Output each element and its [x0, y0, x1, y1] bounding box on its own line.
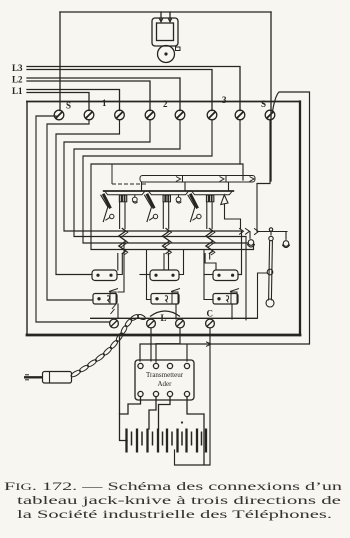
svg-text:S: S — [66, 101, 71, 111]
svg-text:S: S — [261, 99, 266, 109]
svg-text:3: 3 — [222, 95, 227, 105]
svg-text:la Société industrielle des Té: la Société industrielle des Téléphones. — [17, 509, 332, 521]
svg-text:L2: L2 — [12, 75, 23, 85]
svg-text:L: L — [161, 313, 167, 323]
svg-text:L1: L1 — [12, 86, 23, 96]
svg-text:FIG. 172. — Schéma des connexi: FIG. 172. — Schéma des connexions d’un — [4, 481, 342, 493]
svg-text:Ader: Ader — [158, 380, 173, 388]
svg-text:tableau jack-knive à trois dir: tableau jack-knive à trois directions de — [17, 495, 341, 507]
svg-text:L3: L3 — [12, 63, 23, 73]
svg-text:Transmetteur: Transmetteur — [146, 371, 184, 379]
svg-text:C: C — [207, 309, 214, 319]
svg-text:1: 1 — [102, 98, 107, 108]
svg-text:2: 2 — [163, 99, 168, 109]
